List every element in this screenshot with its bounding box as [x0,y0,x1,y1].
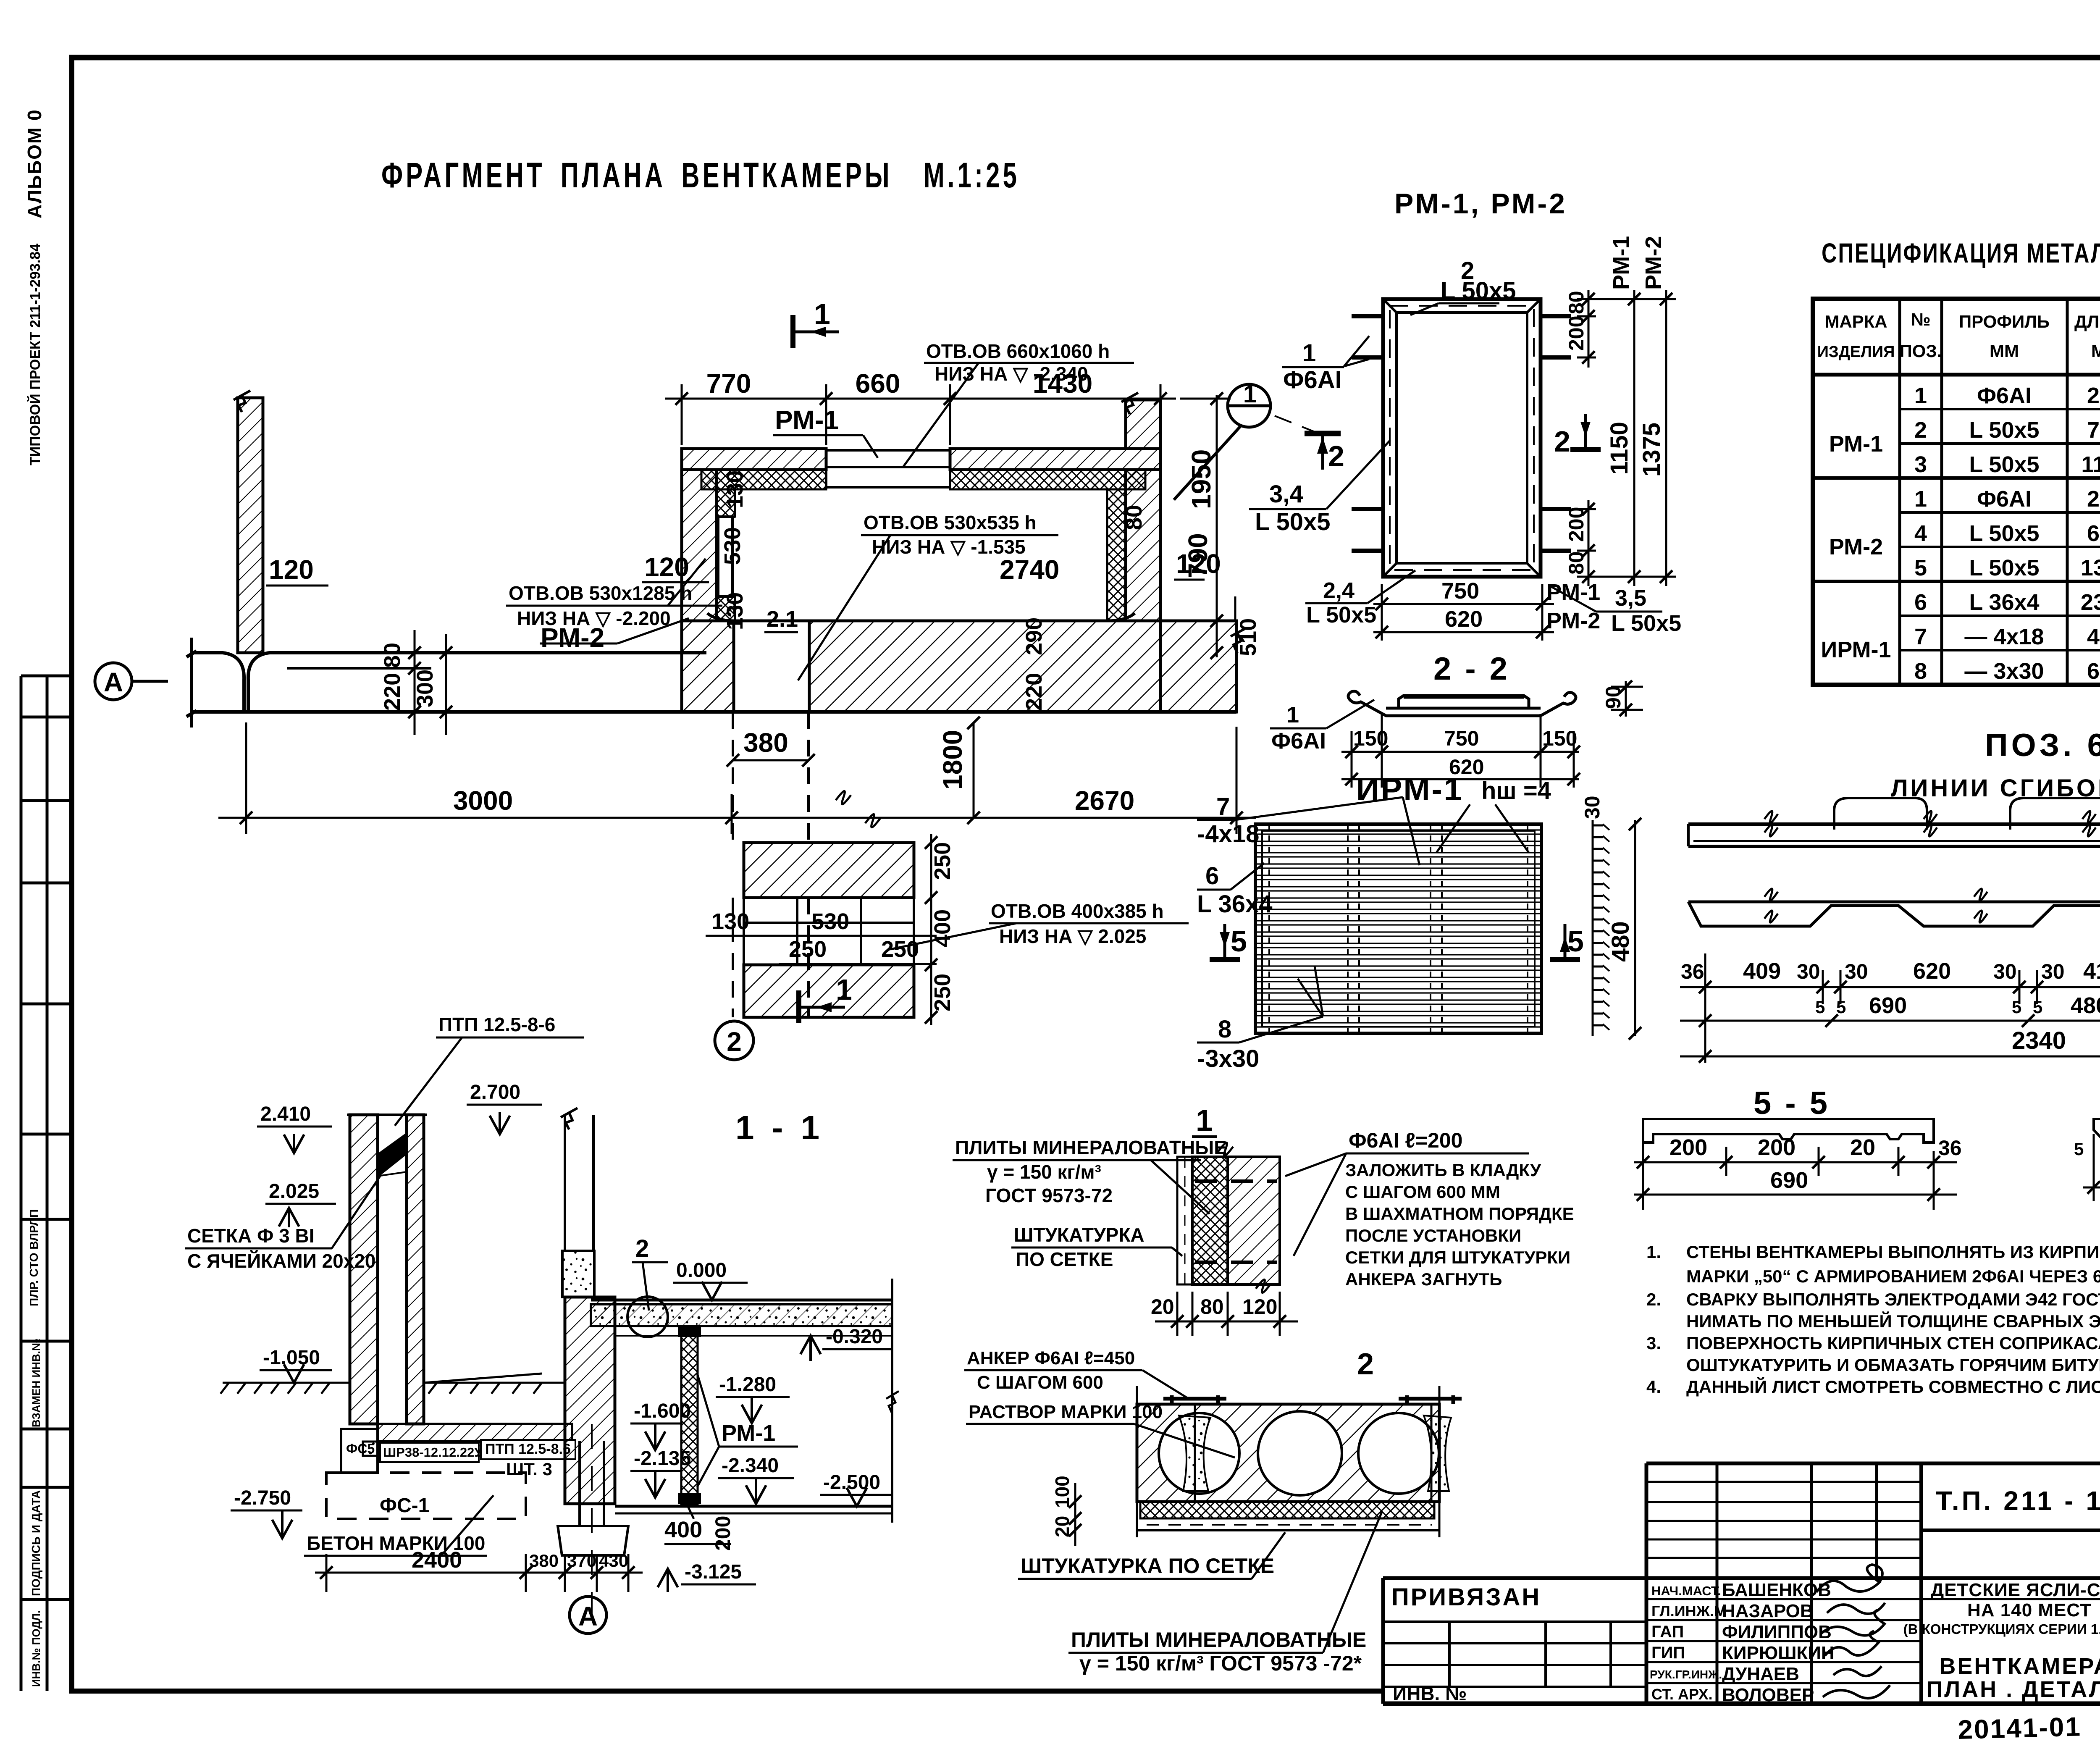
svg-text:СТЕНЫ ВЕНТКАМЕРЫ ВЫПОЛНЯТЬ: СТЕНЫ ВЕНТКАМЕРЫ ВЫПОЛНЯТЬ ИЗ КИРПИЧА МА… [1686,1242,2100,1262]
bar 1 (flat strip with breaks) [1688,811,2100,846]
bottom dim line 2400/380/370/430 [315,1554,643,1592]
inner thin wall PM-1 cross-hatched [678,1326,701,1504]
svg-text:1150: 1150 [1606,422,1633,475]
svg-text:1375: 1375 [2081,555,2100,580]
svg-text:РМ-2: РМ-2 [1641,236,1666,290]
pos7 bar [2094,1119,2100,1144]
FS-1 dashed outline [326,1473,526,1519]
break marks on dashed lines [836,791,880,827]
svg-text:ФС-1: ФС-1 [380,1494,429,1517]
svg-text:ОТВ.ОВ 530х535 h: ОТВ.ОВ 530х535 h [864,512,1037,533]
section 5 marks [1210,924,1240,960]
svg-text:250: 250 [789,937,827,962]
svg-text:Ф6АI: Ф6АI [1977,486,2032,512]
svg-text:790: 790 [1183,533,1213,578]
dims 150 750 150 / 620 [1341,714,1579,788]
svg-text:400: 400 [664,1517,702,1542]
duct shaft bottom block [744,965,914,1017]
svg-text:660: 660 [856,368,900,399]
svg-text:-3х30: -3х30 [1197,1045,1259,1072]
svg-text:ВЗАМЕН ИНВ.№: ВЗАМЕН ИНВ.№ [30,1339,42,1427]
svg-text:200: 200 [1669,1135,1707,1160]
svg-text:4.: 4. [1646,1377,1661,1397]
svg-text:30: 30 [1580,796,1604,819]
svg-text:МАРКА: МАРКА [1824,312,1887,331]
svg-text:-1.280: -1.280 [719,1374,776,1396]
svg-text:2,4: 2,4 [1323,578,1354,603]
insulation band below slab [1140,1502,1434,1518]
svg-text:С ШАГОМ 600 ММ: С ШАГОМ 600 ММ [1345,1182,1500,1202]
svg-text:1150: 1150 [2081,452,2100,477]
svg-text:2: 2 [727,1027,742,1057]
svg-text:ПО СЕТКЕ: ПО СЕТКЕ [1016,1248,1113,1270]
bottom long dim 3000 / 2670 [218,722,1256,834]
svg-text:АНКЕРА ЗАГНУТЬ: АНКЕРА ЗАГНУТЬ [1345,1269,1502,1289]
svg-text:530: 530 [720,527,745,565]
svg-text:1: 1 [1914,486,1927,512]
svg-text:1: 1 [836,973,856,1006]
spec table grid [1813,299,2100,685]
svg-text:1950: 1950 [1186,449,1216,509]
svg-text:2 - 2: 2 - 2 [1433,651,1510,687]
svg-text:РУК.ГР.ИНЖ.: РУК.ГР.ИНЖ. [1650,1668,1722,1681]
axis circle A (plan) [95,663,168,700]
480 dim [1634,820,1636,1036]
left margin stamp strip [21,676,72,1691]
svg-text:НИЗ НА ▽ -2.340: НИЗ НА ▽ -2.340 [934,363,1088,385]
duct shaft middle [744,898,914,965]
plate labels mid [0,0,0,0]
svg-text:150: 150 [1353,727,1388,750]
svg-text:РМ-2: РМ-2 [541,622,604,653]
svg-text:20141-01: 20141-01 [1957,1711,2082,1745]
svg-text:1 - 1: 1 - 1 [735,1109,824,1146]
svg-text:30: 30 [2041,960,2065,983]
svg-text:1: 1 [1286,702,1299,727]
dim line top (770/660/1430) [665,384,1176,445]
svg-text:ФС5: ФС5 [346,1441,375,1456]
chamber right wall upper continuation [1121,393,1160,449]
dims 20 80 120 [1155,1292,1298,1336]
svg-text:ИРМ-1: ИРМ-1 [1821,637,1891,662]
svg-text:-4х18: -4х18 [1197,820,1259,848]
svg-text:2.700: 2.700 [470,1081,520,1103]
svg-text:5: 5 [1231,925,1250,958]
svg-text:30: 30 [1993,960,2017,983]
signature rows [1646,1598,2100,1600]
svg-text:2: 2 [635,1235,649,1262]
svg-text:5: 5 [1836,997,1846,1017]
5-5 channel bar [1643,1119,1934,1142]
svg-text:130: 130 [711,909,749,934]
svg-text:380: 380 [743,727,788,758]
svg-text:L 50х5: L 50х5 [1611,611,1681,636]
svg-text:СВАРКУ ВЫПОЛНЯТЬ ЭЛЕКТРОДАМИ: СВАРКУ ВЫПОЛНЯТЬ ЭЛЕКТРОДАМИ Э42 ГОСТ 94… [1686,1290,2100,1309]
svg-text:РМ-2: РМ-2 [1546,608,1600,633]
svg-text:РМ-1: РМ-1 [1546,580,1600,605]
svg-text:L 36х4: L 36х4 [1197,890,1273,918]
break slash right end of band [1231,629,1245,653]
wall left vertical (hatched) [234,391,263,653]
5-5 dims [1634,1134,1957,1210]
svg-text:ПЛАН . ДЕТАЛИ.: ПЛАН . ДЕТАЛИ. [1926,1677,2100,1702]
svg-text:2: 2 [1357,1347,1374,1381]
svg-text:0.000: 0.000 [676,1259,727,1282]
svg-text:2670: 2670 [1075,785,1134,816]
svg-text:— 4х18: — 4х18 [1964,624,2044,649]
dim 90 right [1625,681,1627,717]
svg-text:120: 120 [1242,1295,1277,1318]
svg-text:770: 770 [706,368,751,399]
svg-text:120: 120 [644,552,689,582]
anchor dashed lines [1195,1181,1277,1262]
svg-text:-0.320: -0.320 [826,1326,883,1348]
svg-text:-2.750: -2.750 [234,1487,291,1509]
svg-text:1: 1 [1302,339,1316,367]
wall cap + dark wedge [347,1115,427,1176]
svg-text:2.: 2. [1646,1290,1661,1309]
svg-text:ПЛИТЫ МИНЕРАЛОВАТНЫЕ: ПЛИТЫ МИНЕРАЛОВАТНЫЕ [955,1137,1227,1158]
svg-text:ИНВ. №: ИНВ. № [1393,1683,1467,1704]
signatures squiggles [1816,1565,1890,1698]
right boundary of section [891,1279,893,1523]
svg-text:hш =4: hш =4 [1481,777,1551,804]
svg-text:ДАННЫЙ ЛИСТ СМОТРЕТЬ СОВМЕС: ДАННЫЙ ЛИСТ СМОТРЕТЬ СОВМЕСТНО С ЛИСТАМИ… [1686,1376,2100,1397]
svg-text:80: 80 [1200,1295,1224,1318]
section mark 2 right [1570,414,1601,449]
svg-text:5: 5 [1815,997,1825,1017]
chamber inner floor line + fillets [707,613,1135,621]
svg-text:ОТВ.ОВ 660х1060 h: ОТВ.ОВ 660х1060 h [926,340,1110,362]
svg-text:5: 5 [2074,1139,2084,1159]
svg-text:А: А [578,1601,598,1631]
anchor stubs [1352,316,1571,551]
svg-text:36: 36 [1681,960,1704,983]
svg-text:ПРИВЯЗАН: ПРИВЯЗАН [1391,1584,1541,1611]
svg-text:370: 370 [567,1551,596,1571]
svg-text:2.025: 2.025 [269,1180,319,1203]
svg-text:620: 620 [1445,607,1483,632]
svg-text:250: 250 [2087,383,2100,408]
svg-text:3,5: 3,5 [1615,586,1646,611]
svg-text:6: 6 [1205,862,1219,890]
plaster strip [1137,1525,1439,1530]
svg-text:НИЗ НА ▽ 2.025: НИЗ НА ▽ 2.025 [999,925,1146,947]
svg-text:ГОСТ 9573-72: ГОСТ 9573-72 [985,1184,1113,1206]
svg-text:ОШТУКАТУРИТЬ И ОБМАЗАТЬ ГОР: ОШТУКАТУРИТЬ И ОБМАЗАТЬ ГОРЯЧИМ БИТУМОМ … [1686,1355,2100,1375]
chamber top insulation cross-hatch [701,470,826,489]
svg-text:130: 130 [722,470,748,508]
svg-text:430: 430 [599,1551,628,1571]
svg-text:80: 80 [1564,551,1588,575]
svg-text:1375: 1375 [1638,423,1665,477]
svg-text:7: 7 [1914,624,1927,649]
svg-text:-2.135: -2.135 [634,1447,691,1470]
svg-text:МАРКИ „50“ С АРМИРОВАНИЕМ 2Ф: МАРКИ „50“ С АРМИРОВАНИЕМ 2Ф6АI ЧЕРЕЗ 6 … [1686,1266,2100,1286]
svg-text:ММ: ММ [1990,341,2019,361]
svg-text:Ф6АI: Ф6АI [1271,728,1326,754]
svg-text:ВЕНТКАМЕРА.: ВЕНТКАМЕРА. [1939,1654,2100,1679]
duct shaft below: top block [744,843,914,898]
svg-text:СТ. АРХ.: СТ. АРХ. [1651,1686,1713,1703]
svg-text:Ф6АI: Ф6АI [1977,383,2032,408]
axis circle 2 (below plan) [715,1021,753,1060]
bar 2 (bent strip with trapezoid dips) [1688,889,2100,926]
svg-text:ШТУКАТУРКА: ШТУКАТУРКА [1014,1224,1144,1246]
svg-text:АНКЕР Ф6АI ℓ=450: АНКЕР Ф6АI ℓ=450 [967,1348,1135,1368]
FS block under wall [341,1429,378,1473]
svg-text:ШТУКАТУРКА ПО СЕТКЕ: ШТУКАТУРКА ПО СЕТКЕ [1021,1554,1274,1578]
svg-text:ПОЗ.: ПОЗ. [1900,341,1942,361]
svg-text:100: 100 [1051,1476,1073,1508]
svg-text:С ЯЧЕЙКАМИ 20х20: С ЯЧЕЙКАМИ 20х20 [187,1250,376,1272]
slab with hollow cores [1137,1404,1451,1502]
svg-text:ДЕТСКИЕ ЯСЛИ-САД: ДЕТСКИЕ ЯСЛИ-САД [1931,1580,2100,1600]
grate rectangle [1255,824,1541,1033]
svg-text:678: 678 [2087,659,2100,684]
U-wall right flange [407,1115,424,1424]
pos7 dims [2083,1104,2100,1201]
svg-text:ПОСЛЕ УСТАНОВКИ: ПОСЛЕ УСТАНОВКИ [1345,1226,1521,1245]
bend-lines brackets [1834,798,2100,830]
axis circle A (section) [570,1597,606,1634]
privyazan box rows [1383,1620,1646,1623]
svg-text:36: 36 [1938,1136,1962,1160]
ground hatched right of wall [424,1374,565,1394]
svg-text:γ = 150 кг/м³ ГОСТ 9573 -72*: γ = 150 кг/м³ ГОСТ 9573 -72* [1079,1652,1362,1675]
svg-text:80: 80 [380,643,405,668]
small table rows [1646,1481,1921,1483]
svg-text:-1.600: -1.600 [634,1400,691,1422]
svg-text:ПРОФИЛЬ: ПРОФИЛЬ [1959,312,2050,331]
svg-text:20: 20 [1850,1135,1875,1160]
svg-text:БАШЕНКОВ: БАШЕНКОВ [1722,1580,1831,1600]
svg-text:РМ-1: РМ-1 [775,405,839,435]
svg-text:130: 130 [722,592,748,630]
section flag 1 bottom [799,990,845,1023]
svg-text:-3.125: -3.125 [685,1561,742,1583]
svg-text:НАЗАРОВ: НАЗАРОВ [1722,1601,1814,1621]
svg-text:(В КОНСТРУКЦИЯХ СЕРИИ 1.090.1-: (В КОНСТРУКЦИЯХ СЕРИИ 1.090.1-1) [1903,1621,2100,1637]
svg-text:200: 200 [1564,507,1588,542]
svg-text:200: 200 [1564,316,1588,351]
svg-text:1: 1 [1914,383,1927,408]
svg-text:ФРАГМЕНТ ПЛАНА ВЕНТКАМЕРЫ М.1: ФРАГМЕНТ ПЛАНА ВЕНТКАМЕРЫ М.1:25 [381,155,1020,195]
svg-text:80: 80 [1564,291,1588,314]
chamber right wall [1126,470,1160,621]
svg-text:6: 6 [1914,590,1927,615]
svg-text:250: 250 [881,937,919,962]
svg-text:ПОЗ. 6: ПОЗ. 6 [1985,727,2100,763]
svg-text:2740: 2740 [1000,554,1059,585]
side vertical edges [1136,1386,1138,1537]
svg-text:ПТП 12.5-8-6: ПТП 12.5-8-6 [438,1014,555,1035]
svg-text:ИНВ.№ ПОДЛ.: ИНВ.№ ПОДЛ. [30,1610,42,1687]
svg-text:ВОЛОВЕР: ВОЛОВЕР [1722,1685,1814,1705]
spec table header text [1817,310,2100,370]
detail circle on slab [627,1297,668,1337]
svg-text:НА 140 МЕСТ: НА 140 МЕСТ [1967,1600,2092,1620]
svg-text:150: 150 [1542,727,1577,750]
svg-text:СЕТКА Ф 3 ВI: СЕТКА Ф 3 ВI [187,1225,314,1247]
svg-text:1: 1 [1196,1104,1213,1137]
channel profile [1348,691,1576,716]
svg-text:200: 200 [1758,1135,1795,1160]
1950 vertical dim right [1216,395,1218,657]
svg-text:ОТВ.ОВ 400х385 h: ОТВ.ОВ 400х385 h [991,900,1164,922]
svg-text:ШТ. 3: ШТ. 3 [506,1459,552,1479]
anchors on top [1163,1395,1462,1404]
svg-text:-1.050: -1.050 [263,1347,320,1369]
section flag 1 top [793,315,839,348]
floor opening dashed (duct 380) [733,712,808,1017]
svg-text:3,4: 3,4 [1269,481,1303,508]
pit left wall hatched [565,1297,615,1504]
speckled block on column [562,1251,594,1297]
right dim chains 80/200 + PM-1 PM-2 columns [1577,290,1676,586]
svg-text:РМ-1: РМ-1 [722,1421,775,1446]
spec table data [1821,383,2100,684]
U-wall left flange [350,1115,378,1424]
svg-text:РМ-1: РМ-1 [1609,236,1634,290]
column + footing bottom [558,1424,628,1630]
svg-text:3.: 3. [1646,1333,1661,1353]
svg-text:2.1: 2.1 [766,607,798,632]
svg-text:ГЛ.ИНЖ.М: ГЛ.ИНЖ.М [1651,1602,1727,1620]
svg-text:ОТВ.ОВ 530х1285 h: ОТВ.ОВ 530х1285 h [509,582,692,604]
0.000 slab [591,1300,892,1336]
svg-text:ПОВЕРХНОСТЬ КИРПИЧНЫХ СТЕН: ПОВЕРХНОСТЬ КИРПИЧНЫХ СТЕН СОПРИКАСАЮЩИХ… [1686,1333,2100,1353]
svg-text:30: 30 [1845,960,1868,983]
svg-text:8: 8 [1914,659,1927,684]
svg-text:408: 408 [2087,624,2100,649]
svg-text:А: А [104,667,123,697]
opening 660 frame PM-1 [826,449,950,489]
svg-text:ПЛИТЫ МИНЕРАЛОВАТНЫЕ: ПЛИТЫ МИНЕРАЛОВАТНЫЕ [1071,1628,1366,1652]
svg-text:530: 530 [811,909,849,934]
svg-text:750: 750 [2087,418,2100,443]
svg-text:ФИЛИППОВ: ФИЛИППОВ [1722,1622,1832,1642]
svg-text:690: 690 [1770,1168,1808,1193]
svg-text:СЕТКИ ДЛЯ ШТУКАТУРКИ: СЕТКИ ДЛЯ ШТУКАТУРКИ [1345,1247,1570,1267]
right column of section [561,1108,593,1251]
svg-text:750: 750 [1444,727,1479,750]
svg-text:290: 290 [1021,617,1047,655]
svg-text:-2.500: -2.500 [823,1471,880,1494]
svg-text:№: № [1911,310,1931,329]
hsh=4 leaders [1436,804,1529,853]
svg-text:РМ-2: РМ-2 [1829,534,1883,559]
svg-text:2.410: 2.410 [260,1103,311,1125]
T.P. box bottom [1921,1529,2100,1532]
svg-text:РМ-1, РМ-2: РМ-1, РМ-2 [1394,188,1567,220]
svg-text:L 50х5: L 50х5 [1255,508,1331,536]
svg-text:ММ: ММ [2091,341,2100,361]
svg-text:НИМАТЬ ПО МЕНЬШЕЙ ТОЛЩИНЕ: НИМАТЬ ПО МЕНЬШЕЙ ТОЛЩИНЕ СВАРНЫХ ЭЛЕМЕН… [1686,1311,2100,1331]
svg-text:120: 120 [269,554,314,585]
long wall band: top edge with funnel notch [186,638,1236,727]
svg-text:НАЧ.МАСТ.: НАЧ.МАСТ. [1651,1584,1721,1598]
toothed strip right [1593,820,1609,1036]
svg-text:ЗАЛОЖИТЬ В КЛАДКУ: ЗАЛОЖИТЬ В КЛАДКУ [1345,1160,1541,1180]
U-wall base slab PTP [378,1424,572,1442]
svg-text:510: 510 [1236,618,1261,656]
svg-text:1.: 1. [1646,1242,1661,1262]
chamber top wall (hatched, with opening) [682,449,826,470]
svg-text:1: 1 [814,298,834,331]
svg-text:750: 750 [1441,578,1479,604]
svg-text:5: 5 [2033,997,2042,1017]
svg-text:5: 5 [1567,925,1587,958]
svg-text:ГАП: ГАП [1651,1623,1684,1641]
detail circle mark 1 (right of plan) [1174,384,1315,500]
svg-text:ГИП: ГИП [1651,1644,1685,1662]
svg-text:ПОДПИСЬ И ДАТА: ПОДПИСЬ И ДАТА [29,1490,42,1596]
svg-text:ТИПОВОЙ ПРОЕКТ 211-1-293.84: ТИПОВОЙ ПРОЕКТ 211-1-293.84 [27,244,43,465]
svg-text:480: 480 [1607,921,1634,962]
svg-text:L 50х5: L 50х5 [1969,521,2039,546]
svg-text:РАСТВОР МАРКИ 100: РАСТВОР МАРКИ 100 [969,1402,1163,1422]
svg-text:L 50х5: L 50х5 [1969,452,2039,477]
svg-text:2: 2 [1914,418,1927,443]
svg-text:3: 3 [1914,452,1927,477]
svg-text:ПЛР. СТО ВЛРЛП: ПЛР. СТО ВЛРЛП [27,1209,40,1306]
svg-text:5: 5 [1914,555,1927,580]
dim 2340 [1680,1056,2100,1058]
PM-2 frame in left wall opening [717,517,735,596]
section mark 2 left [1305,433,1341,470]
svg-text:5 - 5: 5 - 5 [1753,1085,1830,1121]
svg-text:380: 380 [529,1551,559,1571]
svg-text:409: 409 [1743,959,1781,984]
svg-text:2340: 2340 [2081,590,2100,615]
svg-text:КИРЮШКИН: КИРЮШКИН [1722,1643,1835,1663]
svg-text:— 3х30: — 3х30 [1964,659,2044,684]
svg-text:8: 8 [1218,1016,1231,1043]
svg-text:30: 30 [1797,960,1820,983]
svg-text:Ф6АI: Ф6АI [1283,366,1342,394]
svg-text:220: 220 [1021,673,1047,711]
svg-text:L 50х5: L 50х5 [1969,555,2039,580]
svg-text:В ШАХМАТНОМ ПОРЯДКЕ: В ШАХМАТНОМ ПОРЯДКЕ [1345,1204,1574,1224]
1800 vertical dim [973,723,975,818]
svg-text:250: 250 [930,842,955,880]
svg-text:250: 250 [930,974,955,1011]
small signature table columns [1716,1463,1719,1704]
svg-text:620: 620 [1913,959,1951,984]
svg-text:2340: 2340 [2012,1027,2066,1054]
svg-text:СПЕЦИФИКАЦИЯ МЕТАЛЛИЧЕСКИХ И: СПЕЦИФИКАЦИЯ МЕТАЛЛИЧЕСКИХ ИЗДЕЛИЙ [1822,237,2100,268]
svg-text:200: 200 [711,1516,735,1551]
svg-text:ПТП 12.5-8.6: ПТП 12.5-8.6 [485,1441,571,1457]
svg-text:220: 220 [380,673,405,711]
wall band hatched part under chamber [682,621,734,712]
svg-text:ДУНАЕВ: ДУНАЕВ [1722,1664,1799,1684]
svg-text:7: 7 [1216,793,1230,820]
svg-text:620: 620 [2087,521,2100,546]
svg-text:Т.П. 211 - 1 - 293.84: Т.П. 211 - 1 - 293.84 [1936,1486,2100,1516]
svg-text:80: 80 [1121,505,1147,530]
svg-text:300: 300 [412,670,438,707]
svg-text:90: 90 [1601,685,1625,709]
svg-text:2400: 2400 [412,1547,462,1573]
svg-text:3000: 3000 [453,785,513,816]
svg-text:480: 480 [2071,993,2100,1018]
svg-text:250: 250 [2087,486,2100,512]
svg-text:ИЗДЕЛИЯ: ИЗДЕЛИЯ [1817,343,1895,361]
svg-text:400: 400 [930,909,955,947]
svg-text:-2.340: -2.340 [722,1455,779,1477]
